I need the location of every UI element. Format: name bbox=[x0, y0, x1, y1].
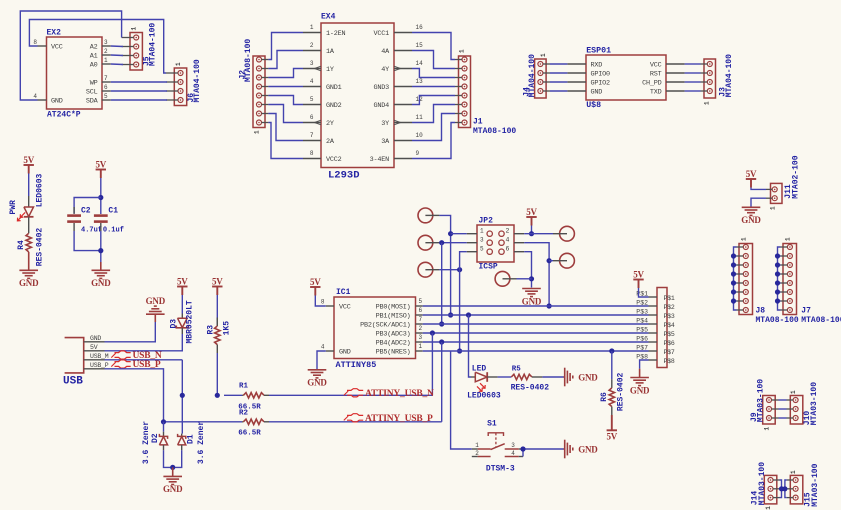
svg-text:VCC2: VCC2 bbox=[326, 156, 342, 164]
wire J14 common bus bbox=[780, 480, 782, 498]
J15 pin stubs bbox=[787, 479, 793, 481]
connector J7 MTA08-100 bbox=[783, 244, 797, 315]
junction MISO at ICSP pin1 bbox=[448, 231, 453, 236]
wire ATTINY_USB_P column bbox=[441, 342, 443, 422]
svg-text:4Y: 4Y bbox=[381, 66, 389, 74]
label USB_N bbox=[111, 353, 115, 357]
svg-text:P$2: P$2 bbox=[664, 304, 675, 311]
svg-text:A0: A0 bbox=[90, 62, 98, 70]
svg-text:8: 8 bbox=[310, 150, 314, 157]
pin 6 2Y bbox=[303, 122, 321, 124]
junction RESET branch bbox=[457, 267, 462, 272]
pin 1 A0 bbox=[102, 63, 111, 65]
ground GND above USB bbox=[146, 313, 165, 315]
junction R6 at PB5 row bbox=[609, 348, 614, 353]
connector J1 MTA08-100 bbox=[459, 56, 471, 128]
svg-text:3A: 3A bbox=[381, 138, 390, 146]
svg-text:GND: GND bbox=[90, 335, 101, 342]
wire A2 to J5 pin2 bbox=[111, 45, 123, 48]
junctions J8 bus bbox=[731, 253, 736, 258]
svg-text:ICSP: ICSP bbox=[479, 263, 498, 272]
J4 pin stubs bbox=[543, 63, 550, 65]
junction MOSI at pad E bbox=[547, 258, 552, 263]
svg-text:MTA04-100: MTA04-100 bbox=[148, 23, 157, 66]
svg-text:R4: R4 bbox=[17, 240, 26, 250]
IC EX4 L293D bbox=[321, 23, 394, 168]
svg-text:7: 7 bbox=[419, 316, 423, 323]
pin 5 SDA bbox=[102, 99, 111, 101]
svg-text:MTA03-100: MTA03-100 bbox=[811, 463, 820, 506]
wire USB_M net bbox=[105, 359, 183, 361]
wire R5 to GND bbox=[542, 376, 563, 378]
svg-text:1: 1 bbox=[310, 24, 314, 31]
svg-text:LED: LED bbox=[472, 365, 487, 374]
wire ICSP pin6 GND column bbox=[524, 252, 531, 288]
junction J15 bus bbox=[782, 486, 787, 491]
wire A0 to J5 pin4 bbox=[111, 63, 123, 66]
pin 7 WP bbox=[102, 81, 111, 83]
wire 5V to D3 bbox=[181, 295, 183, 314]
junction bottom C-node bbox=[98, 248, 103, 253]
wire L293D to J1 pad2 bbox=[412, 51, 455, 69]
supply 5V below R6 bbox=[611, 415, 613, 430]
wire P$8 to GND bbox=[640, 360, 649, 369]
svg-text:6: 6 bbox=[419, 307, 423, 314]
svg-text:5V: 5V bbox=[606, 432, 617, 442]
junction USB_P column at PB4 bbox=[439, 339, 444, 344]
wire L293D to J1 pad3 bbox=[412, 69, 455, 78]
pad circle C RESET bbox=[418, 262, 433, 277]
svg-text:1: 1 bbox=[419, 343, 423, 350]
svg-text:R3: R3 bbox=[207, 325, 216, 335]
svg-text:SCL: SCL bbox=[86, 89, 98, 97]
label USB_P bbox=[111, 362, 115, 366]
svg-text:2Y: 2Y bbox=[326, 120, 334, 128]
svg-text:PWR: PWR bbox=[9, 200, 18, 215]
svg-text:RST: RST bbox=[650, 71, 662, 79]
svg-text:D3: D3 bbox=[170, 319, 179, 329]
svg-text:GND: GND bbox=[163, 484, 183, 494]
pin 1 1-2EN bbox=[303, 32, 321, 34]
svg-text:R2: R2 bbox=[239, 410, 249, 418]
svg-text:VCC: VCC bbox=[650, 62, 662, 70]
svg-text:PB2(SCK/ADC1): PB2(SCK/ADC1) bbox=[360, 322, 410, 330]
svg-text:MTA08-100: MTA08-100 bbox=[244, 39, 253, 82]
J8 pin stubs bbox=[737, 246, 744, 248]
pad circle D 5V bbox=[560, 226, 575, 241]
wire R1 to ATTINY_USB_N bbox=[269, 394, 432, 396]
ground GND under R4 bbox=[19, 269, 38, 271]
wire 5V to P$1 bbox=[639, 288, 649, 297]
svg-text:ATTINY85: ATTINY85 bbox=[336, 360, 377, 370]
wire PB5 to S1 bbox=[451, 351, 472, 449]
wire P$3 PB1 row bbox=[423, 314, 649, 316]
svg-text:1: 1 bbox=[459, 49, 466, 53]
junction USB_N column at PB3 bbox=[430, 330, 435, 335]
svg-text:5V: 5V bbox=[177, 277, 188, 287]
pin 2 bbox=[416, 332, 423, 334]
svg-text:P$3: P$3 bbox=[664, 313, 675, 320]
connector J3 MTA04-100 bbox=[704, 59, 716, 98]
svg-text:1: 1 bbox=[790, 390, 797, 394]
wire R2 to ATTINY_USB_P bbox=[269, 421, 442, 423]
junction R3 at R1 row bbox=[215, 393, 220, 398]
wire J2 pad4 to L293D bbox=[268, 86, 303, 88]
pin 15 4A bbox=[394, 50, 412, 52]
wire J15 common bus bbox=[785, 480, 787, 498]
svg-text:5V: 5V bbox=[526, 207, 537, 217]
ground GND under ICSP bbox=[522, 288, 541, 290]
svg-text:1: 1 bbox=[790, 470, 797, 474]
bus pin stubs bbox=[649, 296, 658, 298]
svg-text:PB1(MISO): PB1(MISO) bbox=[376, 313, 411, 321]
pin 8 VCC bbox=[326, 305, 334, 307]
svg-text:5: 5 bbox=[480, 246, 484, 253]
wire 5V to J11 pin1 bbox=[751, 188, 766, 190]
svg-text:RXD: RXD bbox=[591, 62, 603, 70]
pin 2 A1 bbox=[102, 54, 111, 56]
JP2 left pin stubs bbox=[467, 233, 477, 235]
connector J14 MTA03-100 bbox=[764, 475, 777, 504]
wire L293D to J1 pad8 bbox=[412, 123, 455, 159]
pin 7 2A bbox=[303, 140, 321, 142]
wire USB GND to ground bbox=[105, 322, 156, 342]
svg-text:MTA04-100: MTA04-100 bbox=[528, 54, 537, 97]
junction zener GND bbox=[170, 465, 175, 470]
wire L293D to J1 pad1 bbox=[412, 33, 455, 60]
pad circle E MOSI bbox=[560, 253, 575, 268]
pin 3 A2 bbox=[102, 45, 111, 47]
svg-text:2: 2 bbox=[506, 228, 510, 235]
svg-text:S1: S1 bbox=[487, 420, 497, 429]
pin 4 GND1 bbox=[303, 86, 321, 88]
pin 14 4Y bbox=[394, 68, 412, 70]
svg-text:GND: GND bbox=[19, 278, 39, 288]
wire 5V to LED D4 bbox=[28, 174, 30, 197]
wire SDA to J6 pin4 bbox=[111, 99, 167, 101]
svg-text:MTA03-100: MTA03-100 bbox=[756, 379, 765, 422]
J9 pin stubs bbox=[772, 399, 779, 401]
connector J10 MTA03-100 bbox=[790, 396, 803, 425]
wire ICSP pin2 to pad D bbox=[524, 233, 553, 235]
svg-text:DTSM-3: DTSM-3 bbox=[486, 465, 515, 474]
J10 pin stubs bbox=[787, 399, 794, 401]
wire GND net EX2 to J5 pin1 bbox=[20, 11, 121, 100]
svg-text:J8: J8 bbox=[756, 307, 766, 316]
ground GND at P$8 bbox=[639, 369, 641, 378]
svg-text:6: 6 bbox=[310, 114, 314, 121]
wire L293D to J1 pad5 bbox=[412, 96, 455, 105]
svg-text:MTA08-100: MTA08-100 bbox=[801, 316, 841, 325]
svg-text:5: 5 bbox=[419, 298, 423, 305]
junction J14 bus bbox=[779, 486, 784, 491]
connector J6 MTA04-100 bbox=[174, 68, 186, 106]
svg-text:GND: GND bbox=[630, 385, 650, 395]
pin 1 bbox=[416, 350, 423, 352]
svg-text:GND: GND bbox=[91, 278, 111, 288]
connector J11 MTA02-100 bbox=[771, 183, 783, 203]
svg-text:GND: GND bbox=[522, 296, 542, 306]
ground GND under IC1 bbox=[308, 369, 327, 371]
svg-text:MBR0520LT: MBR0520LT bbox=[186, 300, 195, 343]
junction D2 at R2 row bbox=[161, 419, 166, 424]
svg-text:MTA04-100: MTA04-100 bbox=[725, 54, 734, 97]
junction MOSI at PB0 row bbox=[547, 303, 552, 308]
svg-text:ATTINY_USB_P: ATTINY_USB_P bbox=[365, 414, 433, 424]
svg-text:6: 6 bbox=[506, 246, 510, 253]
svg-text:P$5: P$5 bbox=[664, 331, 675, 338]
svg-text:D2: D2 bbox=[151, 433, 160, 443]
svg-text:MTA03-100: MTA03-100 bbox=[758, 462, 767, 505]
wire branch to C2 bbox=[74, 198, 101, 214]
wire J2 pad8 to L293D bbox=[268, 123, 303, 159]
svg-text:1K5: 1K5 bbox=[223, 321, 232, 336]
pin 4 GND bbox=[326, 350, 334, 352]
svg-text:1: 1 bbox=[785, 237, 792, 241]
wire J2 pad5 to L293D bbox=[268, 96, 303, 105]
wire WP to J6 pin2 bbox=[111, 81, 167, 83]
junction SCK at PB2 row bbox=[439, 321, 444, 326]
pin 8 VCC bbox=[38, 45, 47, 47]
wire J2 pad1 to L293D bbox=[268, 33, 303, 60]
label ATTINY_USB_P bbox=[344, 416, 348, 420]
wire ATTINY_USB_N column bbox=[431, 333, 433, 395]
ground GND right of S1 bbox=[564, 448, 565, 450]
svg-text:4: 4 bbox=[506, 237, 510, 244]
pin 6 bbox=[416, 314, 423, 316]
resistor R4 RES-0402 bbox=[26, 233, 31, 252]
capacitor C1 0.1uf bbox=[94, 214, 108, 217]
svg-text:11: 11 bbox=[416, 114, 424, 121]
svg-text:1: 1 bbox=[765, 506, 772, 510]
junction top C-node bbox=[98, 195, 103, 200]
ESP01 right pin stubs bbox=[666, 63, 685, 65]
svg-text:3: 3 bbox=[480, 237, 484, 244]
wire IC1 GND bbox=[317, 351, 326, 370]
wire 5V to ICSP pin2 bbox=[531, 226, 533, 234]
svg-text:P$7: P$7 bbox=[664, 349, 675, 356]
svg-text:VCC: VCC bbox=[339, 304, 351, 312]
capacitor C2 4.7uf bbox=[73, 207, 75, 214]
svg-text:RES-0402: RES-0402 bbox=[511, 384, 550, 393]
svg-text:RES-0402: RES-0402 bbox=[617, 372, 626, 411]
svg-text:7: 7 bbox=[310, 132, 314, 139]
svg-text:GND: GND bbox=[741, 215, 761, 225]
svg-text:TXD: TXD bbox=[650, 89, 662, 97]
wire PB1 to LED bbox=[469, 315, 472, 377]
IC EX2 AT24C*P bbox=[47, 37, 103, 109]
JP2 right pin stubs bbox=[514, 233, 524, 235]
svg-text:GPIO2: GPIO2 bbox=[591, 80, 611, 88]
svg-text:4.7uf: 4.7uf bbox=[81, 226, 102, 234]
svg-text:GND: GND bbox=[51, 98, 63, 106]
junction RESET at PB5 row bbox=[457, 348, 462, 353]
svg-text:2: 2 bbox=[104, 48, 108, 55]
svg-text:3.6 Zener: 3.6 Zener bbox=[142, 421, 151, 464]
svg-text:5: 5 bbox=[310, 96, 314, 103]
junction USB_N at R1 bbox=[180, 393, 185, 398]
svg-text:VCC: VCC bbox=[51, 44, 63, 52]
wire A1 to J5 pin3 bbox=[111, 54, 123, 57]
junctions J7 bus bbox=[775, 253, 780, 258]
svg-text:5V: 5V bbox=[746, 169, 757, 179]
svg-text:3-4EN: 3-4EN bbox=[370, 156, 390, 164]
svg-text:GND: GND bbox=[146, 296, 166, 306]
svg-text:MTA08-100: MTA08-100 bbox=[473, 127, 516, 136]
svg-text:13: 13 bbox=[416, 78, 424, 85]
svg-text:5V: 5V bbox=[212, 277, 223, 287]
svg-text:GND1: GND1 bbox=[326, 84, 342, 92]
svg-text:PB4(ADC2): PB4(ADC2) bbox=[376, 340, 411, 348]
svg-text:GND3: GND3 bbox=[373, 84, 389, 92]
svg-text:1A: 1A bbox=[326, 48, 335, 56]
wire LED to R4 bbox=[28, 217, 30, 234]
svg-text:MTA03-100: MTA03-100 bbox=[810, 382, 819, 425]
svg-text:9: 9 bbox=[416, 150, 420, 157]
wire J2 pad7 to L293D bbox=[268, 114, 303, 141]
junction S1 output bbox=[520, 446, 525, 451]
svg-text:GND: GND bbox=[307, 378, 327, 388]
wire C2 to GND rail bbox=[74, 231, 101, 251]
pinhead JP2 ICSP bbox=[477, 225, 514, 262]
svg-text:R1: R1 bbox=[239, 383, 249, 391]
svg-text:1: 1 bbox=[770, 206, 777, 210]
pin 6 SCL bbox=[102, 90, 111, 92]
svg-text:USB: USB bbox=[63, 376, 83, 388]
svg-text:5V: 5V bbox=[633, 270, 644, 280]
svg-text:3: 3 bbox=[104, 39, 108, 46]
pin 3 bbox=[416, 341, 423, 343]
svg-text:5V: 5V bbox=[310, 277, 321, 287]
wire SCL to J6 pin3 bbox=[111, 90, 167, 92]
svg-text:3: 3 bbox=[511, 442, 515, 449]
svg-text:3Y: 3Y bbox=[381, 120, 389, 128]
svg-text:AT24C*P: AT24C*P bbox=[47, 111, 81, 120]
svg-text:J1: J1 bbox=[473, 117, 483, 126]
svg-text:2: 2 bbox=[419, 325, 423, 332]
svg-text:3: 3 bbox=[419, 334, 423, 341]
label ATTINY_USB_N bbox=[344, 391, 348, 395]
svg-text:VCC1: VCC1 bbox=[373, 30, 389, 38]
pin 9 3-4EN bbox=[394, 158, 412, 160]
svg-text:LED0603: LED0603 bbox=[35, 173, 44, 207]
svg-text:1: 1 bbox=[704, 101, 711, 105]
wire pad F to GND column bbox=[517, 278, 532, 280]
svg-text:1: 1 bbox=[131, 27, 138, 31]
resistor R3 1K5 bbox=[216, 318, 218, 327]
wire MISO pad to column bbox=[439, 215, 450, 315]
wire 5V to IC1 VCC bbox=[315, 296, 326, 307]
svg-text:P$4: P$4 bbox=[664, 322, 675, 329]
pin 5 bbox=[416, 305, 423, 307]
J2 pin stubs bbox=[262, 59, 269, 61]
IC U$8 ESP01 bbox=[586, 55, 666, 100]
wire ICSP pin5 to RESET column bbox=[460, 252, 467, 351]
diode D1 zener 3.6 bbox=[181, 434, 183, 437]
diode D3 MBR0520LT bbox=[181, 314, 183, 319]
svg-text:LED0603: LED0603 bbox=[467, 392, 501, 401]
wire P$4 PB2 row bbox=[423, 323, 649, 325]
J3 pin stubs bbox=[701, 63, 708, 65]
svg-text:1: 1 bbox=[475, 442, 479, 449]
svg-text:4: 4 bbox=[511, 450, 515, 457]
svg-text:3: 3 bbox=[310, 60, 314, 67]
wires J4 to ESP01 bbox=[550, 63, 567, 65]
junction LED column at PB1 bbox=[466, 312, 471, 317]
ESP01 left pin stubs bbox=[567, 63, 586, 65]
svg-text:3.6 Zener: 3.6 Zener bbox=[197, 421, 206, 464]
wires J9 to J10 bbox=[779, 399, 787, 401]
svg-text:4: 4 bbox=[321, 344, 325, 351]
svg-text:CH_PD: CH_PD bbox=[642, 80, 662, 88]
connector J2 MTA08-100 bbox=[253, 56, 265, 128]
svg-text:USB_M: USB_M bbox=[90, 353, 109, 360]
pin 11 3Y bbox=[394, 122, 412, 124]
svg-text:EX2: EX2 bbox=[47, 29, 62, 38]
pin 16 VCC1 bbox=[394, 32, 412, 34]
svg-text:MTA04-100: MTA04-100 bbox=[193, 59, 202, 102]
J7 pin stubs bbox=[781, 246, 788, 248]
svg-text:GND: GND bbox=[578, 373, 598, 383]
svg-text:1: 1 bbox=[764, 427, 771, 431]
wire C1 to GND bbox=[100, 231, 102, 262]
wire L293D to J1 pad4 bbox=[412, 86, 455, 88]
connector J8 MTA08-100 bbox=[739, 244, 753, 315]
svg-text:WP: WP bbox=[90, 80, 98, 88]
svg-text:R6: R6 bbox=[600, 392, 609, 402]
ground GND under zeners bbox=[172, 467, 174, 476]
ground GND at J11 bbox=[742, 206, 761, 208]
svg-text:4: 4 bbox=[33, 93, 37, 100]
pin 12 GND4 bbox=[394, 104, 412, 106]
svg-text:GPIO0: GPIO0 bbox=[591, 71, 611, 79]
wire USB_P net bbox=[105, 369, 164, 422]
svg-text:P$1: P$1 bbox=[664, 295, 675, 302]
svg-text:2: 2 bbox=[310, 42, 314, 49]
wire J2 pad2 to L293D bbox=[268, 51, 303, 69]
LED PWR LED0603 bbox=[28, 196, 30, 207]
svg-text:ESP01: ESP01 bbox=[586, 47, 611, 56]
wire L293D to J1 pad6 bbox=[412, 105, 455, 123]
svg-text:PB0(MOSI): PB0(MOSI) bbox=[376, 304, 411, 312]
J14 pin stubs bbox=[773, 479, 780, 481]
svg-text:J7: J7 bbox=[801, 307, 811, 316]
svg-text:GND: GND bbox=[578, 445, 598, 455]
svg-text:0.1uf: 0.1uf bbox=[103, 226, 124, 234]
svg-text:8: 8 bbox=[33, 39, 37, 46]
wire J2 pad6 to L293D bbox=[268, 105, 303, 123]
svg-text:1: 1 bbox=[540, 53, 547, 57]
svg-text:10: 10 bbox=[416, 132, 424, 139]
junction SCK column top bbox=[439, 240, 444, 245]
svg-text:RES-0402: RES-0402 bbox=[35, 228, 44, 267]
pad circle F GND bbox=[495, 271, 510, 286]
wire LED to R5 bbox=[487, 376, 497, 378]
connector J15 MTA03-100 bbox=[790, 475, 803, 504]
wire L293D to J1 pad7 bbox=[412, 114, 455, 141]
svg-text:P$6: P$6 bbox=[664, 340, 675, 347]
svg-text:IC1: IC1 bbox=[336, 288, 351, 297]
pin 7 bbox=[416, 323, 423, 325]
ground GND under C1 bbox=[100, 262, 102, 270]
wire RESET pad to column bbox=[439, 269, 459, 271]
connector J5 MTA04-100 bbox=[130, 33, 142, 71]
wire R4 to GND bbox=[28, 252, 30, 270]
wire P$7 PB5 row bbox=[423, 350, 649, 352]
pin 8 VCC2 bbox=[303, 158, 321, 160]
svg-text:1: 1 bbox=[104, 57, 108, 64]
resistor R6 RES-0402 bbox=[611, 351, 613, 379]
